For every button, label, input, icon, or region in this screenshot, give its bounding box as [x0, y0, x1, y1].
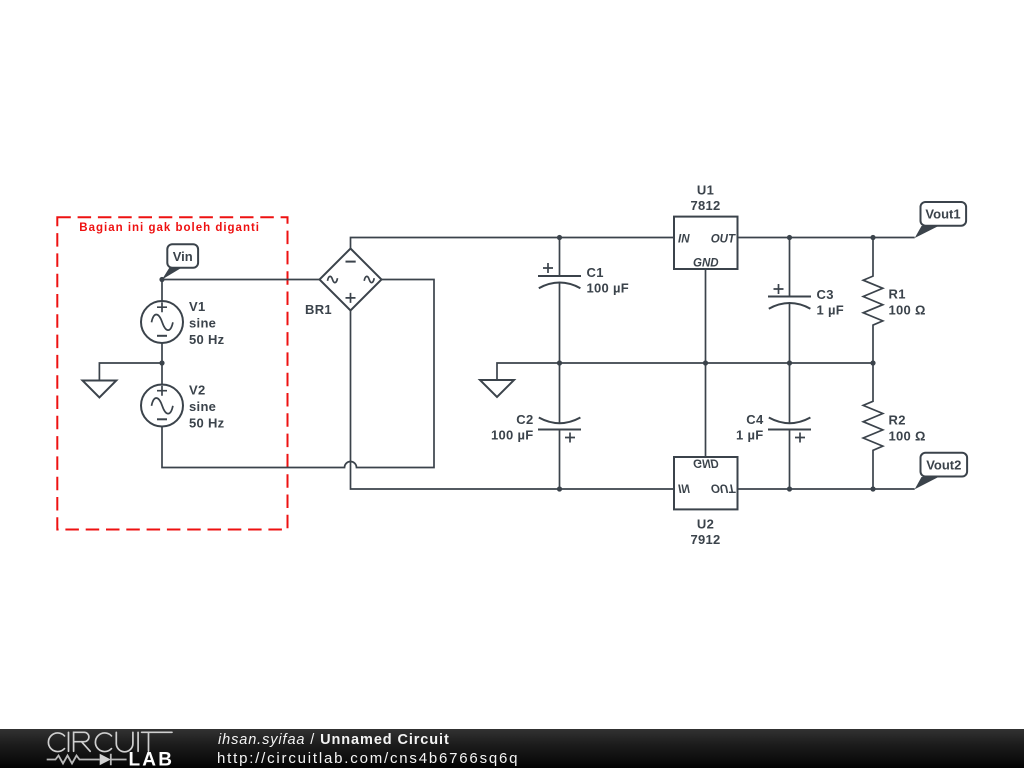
ground symbol (middle rail) [480, 380, 514, 397]
BR1 minus mark [346, 261, 356, 263]
logo T [142, 732, 172, 751]
svg-text:50 Hz: 50 Hz [189, 332, 225, 347]
junction: C3 top [787, 235, 792, 240]
C3 plus mark [774, 284, 784, 294]
junction: C1 top [557, 235, 562, 240]
svg-text:OUT: OUT [711, 233, 736, 245]
wire: top rail from U1 OUT to Vout1 [738, 237, 915, 239]
svg-text:Vout1: Vout1 [925, 207, 960, 222]
V1 sine wave [152, 315, 173, 331]
junction: R2 bottom [870, 486, 875, 491]
logo I [137, 732, 139, 751]
capacitor C4 (flipped) [789, 363, 791, 423]
svg-text:Vout2: Vout2 [926, 457, 961, 472]
svg-text:100 µF: 100 µF [491, 428, 534, 443]
BR1 left AC tilde [328, 276, 338, 282]
ground symbol (left, at V1/V2 midpoint) [83, 381, 117, 398]
wire: middle ground rail [497, 363, 873, 380]
wire: bottom rail from U2 OUT to Vout2 [738, 488, 915, 490]
capacitor C3 [789, 238, 791, 297]
junction: C4 bottom [787, 486, 792, 491]
svg-text:100 µF: 100 µF [587, 280, 630, 295]
V2 sine wave [152, 398, 173, 414]
svg-text:U1: U1 [697, 182, 714, 197]
svg-text:IN: IN [678, 233, 690, 245]
C1 plus mark [543, 263, 553, 273]
node flag Vout1 [915, 226, 939, 238]
footer bar [0, 729, 1024, 768]
C2 plus mark [565, 433, 575, 443]
capacitor C1 [559, 238, 561, 277]
svg-text:LAB: LAB [129, 750, 175, 768]
logo C [95, 733, 111, 752]
regulator U1 7812 [674, 217, 738, 269]
svg-text:1 µF: 1 µF [736, 428, 763, 443]
V2 plus mark [157, 386, 167, 396]
svg-text:1 µF: 1 µF [817, 303, 844, 318]
svg-text:U2: U2 [697, 516, 714, 531]
BR1 right AC tilde [364, 276, 374, 282]
node flag Vin [162, 268, 182, 280]
wire: V1 bottom to V2 top (node between sources) [161, 343, 163, 385]
logo word CIRCUIT: C [48, 733, 64, 752]
svg-text:C2: C2 [516, 412, 533, 427]
svg-text:GND: GND [693, 257, 719, 269]
svg-text:OUT: OUT [711, 481, 736, 493]
wire: source midpoint to left ground [99, 363, 162, 381]
resistor R2 [863, 363, 883, 489]
svg-text:BR1: BR1 [305, 302, 332, 317]
annotation box: red dashed "do not change" region [57, 217, 287, 529]
voltage source V1 [141, 301, 183, 343]
svg-text:7812: 7812 [690, 198, 720, 213]
junction: V1-V2 midpoint [159, 360, 164, 365]
wire: Vin node to V1 top [161, 280, 163, 302]
logo I [68, 732, 70, 751]
resistor R1 [863, 238, 883, 364]
wire: U1 GND to middle rail [705, 269, 707, 363]
wire: BR1 right terminal down and back to V2 (with hop over + wire) [162, 280, 434, 468]
svg-text:100 Ω: 100 Ω [889, 302, 926, 317]
wire: top rail from BR1 top vertex to U1 IN [351, 238, 675, 249]
svg-text:7912: 7912 [690, 532, 720, 547]
svg-text:100 Ω: 100 Ω [889, 428, 926, 443]
logo resistor-diode line [47, 754, 127, 765]
svg-text:C1: C1 [587, 265, 604, 280]
bridge rectifier BR1 body [320, 249, 382, 311]
svg-text:V1: V1 [189, 299, 206, 314]
wire: Vin node to BR1 left terminal [162, 279, 320, 281]
BR1 plus mark [346, 293, 356, 303]
svg-text:50 Hz: 50 Hz [189, 415, 225, 430]
junction: U1/U2 GND on middle rail [703, 360, 708, 365]
svg-text:Vin: Vin [173, 249, 193, 264]
junction: Vin node [159, 277, 164, 282]
logo R [74, 732, 91, 751]
node flag Vout2 [915, 477, 939, 489]
svg-text:V2: V2 [189, 382, 206, 397]
V1 minus mark [157, 335, 167, 337]
wire: BR1 + output down to bottom rail, to U2 IN [351, 311, 675, 490]
svg-text:GND: GND [693, 457, 719, 469]
U2 pin labels (mirrored) [678, 457, 736, 494]
wire: U2 GND to middle rail [705, 363, 707, 457]
logo diode triangle [100, 754, 111, 765]
svg-text:C4: C4 [746, 412, 764, 427]
junction: C2 bottom [557, 486, 562, 491]
svg-text:C3: C3 [817, 287, 834, 302]
svg-text:Bagian ini gak boleh diganti: Bagian ini gak boleh diganti [79, 222, 260, 234]
V2 minus mark [157, 418, 167, 420]
regulator U2 7912 (flipped) [674, 457, 738, 509]
voltage source V2 [141, 385, 183, 427]
svg-text:sine: sine [189, 315, 216, 330]
V1 plus mark [157, 302, 167, 312]
junction: C1/C2 middle [557, 360, 562, 365]
svg-text:sine: sine [189, 399, 216, 414]
svg-text:R1: R1 [889, 286, 906, 301]
capacitor C2 (flipped) [559, 363, 561, 423]
svg-text:R2: R2 [889, 412, 906, 427]
junction: C3/C4 middle [787, 360, 792, 365]
junction: R1/R2 middle [870, 360, 875, 365]
C4 plus mark [795, 433, 805, 443]
svg-text:IN: IN [678, 481, 690, 493]
junction: R1 top [870, 235, 875, 240]
logo U [116, 732, 133, 751]
